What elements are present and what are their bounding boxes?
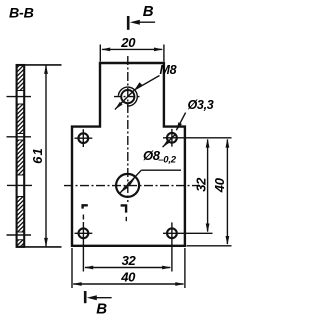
O3,3 leader (176, 113, 185, 131)
svg-text:Ø3,3: Ø3,3 (188, 98, 214, 112)
svg-text:M8: M8 (160, 63, 177, 77)
corner mark right (121, 205, 127, 212)
svg-text:B-B: B-B (9, 6, 34, 22)
side view hole centerline ticks (7, 97, 33, 235)
svg-text:61: 61 (30, 147, 45, 164)
side view bottom extension line (16, 246, 62, 248)
svg-text:40: 40 (120, 269, 136, 284)
M8 leader (115, 76, 160, 110)
big hole O8 (116, 174, 139, 197)
right extension lines (178, 137, 232, 139)
dim 32 right line (207, 140, 209, 232)
svg-text:–0,2: –0,2 (158, 155, 177, 166)
O8 diameter line 45deg with internal arrows (120, 170, 141, 193)
side view section bar outline (17, 65, 25, 247)
hole top-left (75, 129, 93, 147)
O3,3 lower-left tail arrow (163, 140, 171, 148)
M8 hole (121, 90, 134, 103)
svg-text:B: B (143, 3, 154, 20)
dim 40 bottom line (73, 283, 183, 285)
hole top-right (O3,3) (163, 129, 178, 147)
side view hole gap edges (17, 91, 24, 240)
svg-text:40: 40 (212, 177, 227, 193)
dim 20 extension lines (100, 45, 164, 62)
dim 32 bottom line (85, 267, 170, 269)
dim 40 right line (226, 140, 228, 245)
big hole horizontal centerline (64, 185, 199, 187)
hole bottom-right (163, 222, 213, 271)
M8 lower-left tail arrow (115, 102, 123, 110)
svg-text:B: B (96, 301, 107, 317)
bottom extension lines for 40 (72, 248, 185, 288)
M8 thread arc (118, 87, 137, 106)
hole bottom-left (75, 215, 93, 272)
main vertical centerline (127, 56, 129, 202)
O8 leader shelf (141, 169, 181, 171)
M8 hole horizontal centerline (114, 96, 142, 98)
section arrow B top (128, 3, 155, 30)
side view top extension line (16, 64, 62, 66)
dim 20 line (102, 48, 162, 50)
section arrow B bottom (85, 291, 111, 317)
dimension 61 line (45, 66, 47, 247)
svg-text:20: 20 (120, 35, 136, 50)
svg-text:32: 32 (193, 177, 208, 192)
front view outline (72, 63, 185, 246)
svg-text:32: 32 (122, 253, 137, 268)
corner mark left (83, 205, 88, 208)
